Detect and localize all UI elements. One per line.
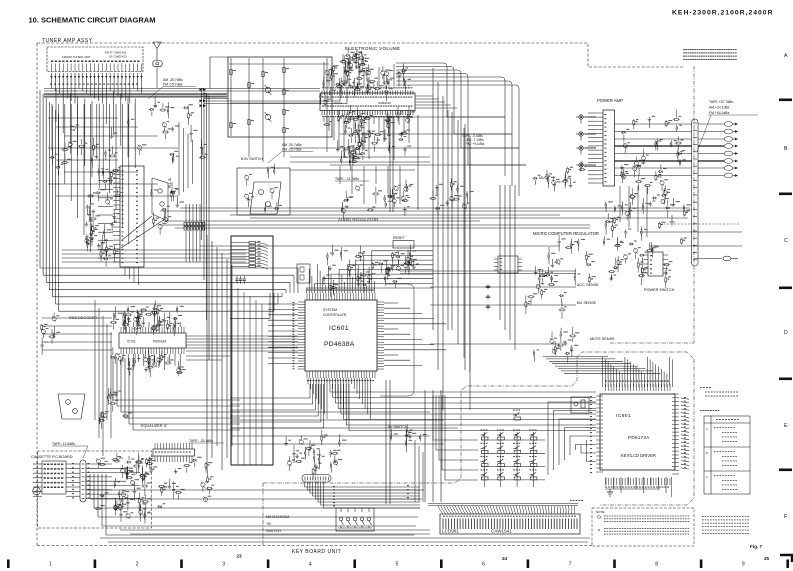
svg-text:AM +24.1dBs: AM +24.1dBs [709,106,730,110]
long top wires from tuner bus [204,87,347,104]
lcd bus lines [428,503,578,505]
IC601 bottom pin comb [306,371,308,378]
power amp IC left pins [596,112,603,114]
tuner bus corner drop bundle [202,89,205,241]
safety note paragraph [683,49,685,50]
svg-text:MUTE SENSE: MUTE SENSE [590,337,615,341]
svg-text:5: 5 [396,562,399,568]
b5v switch trapezoid [250,182,281,214]
FM IF box drop wires [248,136,250,157]
IC601 right wires [384,302,398,304]
lcd fan wires [438,506,443,514]
svg-text:AUDIO REGULATOR: AUDIO REGULATOR [338,217,378,222]
svg-text:BU SENSE: BU SENSE [577,301,597,305]
center vertical bus [432,68,434,330]
cassette capsule connector [80,460,86,502]
svg-text:KEH-2300R,2100R,2400R: KEH-2300R,2100R,2400R [672,10,773,17]
IC601 bottom nested bus left [230,384,310,398]
IC901 right wires [681,398,689,399]
mid horizontal bundle [230,267,298,269]
svg-text:POWER AMP: POWER AMP [597,98,623,103]
volume to power amp stepped wires [396,63,447,117]
PLL IC bottom stubs [124,267,126,276]
power amp left stubs [588,112,596,114]
svg-text:B.5V SWITCH: B.5V SWITCH [241,157,263,161]
decimal note text block [702,515,704,518]
svg-text:5V SWITCH: 5V SWITCH [388,425,408,429]
reset box [393,241,414,249]
IC901 key lcd driver box [600,394,675,470]
trapezoid diagonal wire [121,219,165,248]
svg-text:NOTE:: NOTE: [596,510,605,514]
key matrix switches [481,430,483,431]
power amp output lines [615,123,693,125]
svg-text:CAW1541: CAW1541 [491,529,512,534]
svg-text:SYSTEM: SYSTEM [323,308,337,312]
svg-text:Fig. 7: Fig. 7 [750,544,762,549]
rds to equalizer corner bundle [113,358,240,400]
svg-text:TAPE:-12.6dBs: TAPE:-12.6dBs [52,442,75,446]
svg-text:M: M [35,490,38,494]
IC901 bottom right stub [671,477,673,497]
5v switch cluster [409,432,412,433]
svg-text:TUNER AMP ASSY: TUNER AMP ASSY [42,38,93,44]
left nested corner bus to rds [40,267,230,269]
cassette cluster [126,491,130,492]
tuner vertical drop wires [51,104,53,150]
svg-text:9: 9 [742,562,745,568]
audio regulator right cluster [460,186,463,187]
right mid connector wires [660,223,740,225]
IC601 bottom wires [307,378,309,384]
svg-text:F: F [784,514,787,520]
FM IF internal verticals [230,58,232,136]
svg-text:AM -25.7dBs: AM -25.7dBs [282,143,302,147]
equalizer cluster [125,467,129,468]
svg-text:ELECTRONIC VOLUME: ELECTRONIC VOLUME [345,46,400,51]
svg-text:POWER SWITCH: POWER SWITCH [644,288,675,292]
svg-text:KEY/LCD DRIVER: KEY/LCD DRIVER [621,453,656,458]
keyboard unit dash-dot boundary [263,352,694,483]
svg-text:PD6173A: PD6173A [628,435,650,440]
svg-text:PA0016A: PA0016A [153,340,167,344]
long audio signal lines [350,116,505,118]
mechanism wires down [305,482,421,487]
svg-text:AM -25.7dBs: AM -25.7dBs [163,78,183,82]
svg-text:10. SCHEMATIC CIRCUIT DIAGRAM: 10. SCHEMATIC CIRCUIT DIAGRAM [29,16,156,25]
svg-text:TAPE: -25.1dBs: TAPE: -25.1dBs [189,439,213,443]
pll area cluster [156,218,160,219]
extra mid rails [230,214,560,216]
svg-text:MECHANISM: MECHANISM [266,515,289,519]
bottom ruler ticks [7,560,10,569]
power amp input transistors [579,115,583,119]
main board dashed border bottom [37,545,592,547]
bottom long rails [100,537,590,539]
cassette dashed outline [38,451,152,528]
tape bus lines [290,156,430,158]
rds IC top pins [120,327,122,333]
IC601 top wires [307,288,434,293]
IC601 bottom nested bus right [330,384,596,392]
regulator cluster 2 [564,306,567,307]
svg-text:FM: +9.1dBs: FM: +9.1dBs [466,142,485,146]
pll right vertical bundle [178,122,180,196]
key matrix row wires [481,439,545,441]
left ribbon horizontals [62,249,246,251]
svg-text:IC701: IC701 [127,340,136,344]
rds upper cluster [151,311,155,312]
electronic volume IC top pins [321,91,323,96]
IC601 top cluster [335,250,339,251]
keyboard interface wires [414,440,416,502]
lcd connector pin comb [442,519,444,530]
tuner area horizontals [48,117,118,119]
main board dashed border left [36,43,38,546]
PLL IC left pins [113,169,120,171]
speaker connector capsule [692,119,699,266]
crystal box left of IC901 [571,397,589,413]
wires tuner to FM IF [204,93,228,95]
right edge ticks [779,99,792,102]
audio regulator cluster [372,206,375,207]
rds IC bottom pins [120,348,122,354]
IC601 to LCD vertical wires [424,390,426,502]
electronic volume IC bottom pins [321,111,323,116]
b5v switch outer box [237,168,290,215]
svg-text:23: 23 [237,554,243,559]
PLL IC left component cluster [95,225,99,226]
key extra switch [513,410,515,411]
IC601 right pin comb ticks [377,301,384,303]
power amp IC box [603,110,615,186]
ribbon pads left of IC601 [249,242,256,244]
svg-text:1: 1 [49,562,52,568]
mute sense wire [430,343,560,345]
mechanism switch box [336,508,374,531]
electronic volume lower cluster [354,149,357,150]
svg-text:24: 24 [502,556,508,561]
tuner unit connector row [51,73,53,82]
regulator cluster [620,242,624,243]
left margin vertical wires [39,90,41,268]
key matrix column wires [484,432,486,487]
power switch cluster [668,270,671,271]
tuner to IF long wires [204,95,228,97]
svg-text:2: 2 [136,562,139,568]
svg-text:SWITCH: SWITCH [266,529,281,533]
tuner unit pin comb [51,64,53,72]
IC601 right bracket bus [380,284,414,396]
mechanism connector capsule [302,475,331,483]
small cap column [487,285,489,287]
svg-text:7: 7 [569,562,572,568]
svg-text:ACC SENSE: ACC SENSE [577,283,599,287]
mute transistor cluster [573,182,576,183]
svg-text:E: E [784,423,788,429]
resistor array feed verticals [185,231,187,262]
crystal filter trapezoid [152,178,168,221]
svg-text:CONTROLLER: CONTROLLER [323,313,347,317]
FM IF transistors [265,87,271,93]
IC901 top pin comb [605,384,607,391]
svg-text:IC101: IC101 [334,101,342,105]
rds decoder IC701 box [119,333,186,348]
IC601 top pin comb [306,293,308,300]
wires inside shield loop [237,288,239,465]
FM IF internal rails [229,63,329,65]
volume down to audio regulator wires [339,166,341,184]
electronic volume right rails [415,95,433,97]
tuner output bus [44,88,204,90]
cassette wires capsule right [86,463,112,465]
cassette preamp trapezoid [58,394,85,419]
speaker plugs [724,122,732,127]
note dashed box [592,508,694,546]
rom note lines [700,387,702,388]
svg-text:GF CWE1420: GF CWE1420 [109,54,127,58]
equalizer IC box [153,449,195,456]
power amp input segments [585,116,596,118]
IC901 top bus bundle [543,356,608,358]
svg-text:6: 6 [482,562,485,568]
volume bottom vertical pair [389,115,391,212]
IC901 left pin comb [596,395,603,397]
power amp vertical feeds [619,186,621,222]
left lower vertical wires [94,300,96,420]
tuner bus feed wires [51,82,53,89]
trapezoid right parts [111,394,115,395]
IC901 ground [609,489,611,492]
svg-text:IC601: IC601 [329,325,349,332]
cassette head box [42,461,66,494]
svg-text:IC901: IC901 [616,413,631,419]
rds lower cluster [115,353,118,354]
ic601 bottom long vertical pair [385,380,387,504]
key matrix to IC901 nested wires [548,402,596,475]
svg-text:MICRO COMPUTER REGULATOR: MICRO COMPUTER REGULATOR [533,231,599,236]
svg-text:FM -15.7dBs: FM -15.7dBs [163,83,183,87]
svg-text:SAB3035: SAB3035 [378,101,391,105]
FM IF vertical resistors [230,70,232,75]
svg-text:D: D [784,330,788,336]
application label [700,410,702,411]
antenna plug [153,61,162,67]
ferrite bead symbols at bus corner [200,88,203,91]
cassette head connector comb [33,463,42,465]
cassette wires head to capsule [66,463,80,465]
tuner components cluster [174,151,177,152]
cassette to keyboard nested bus [86,474,424,490]
power switch IC box [648,252,663,276]
acc sense wire [430,286,576,288]
equalizer IC pins [154,456,156,462]
svg-text:A: A [784,53,788,59]
power amp output network cluster [683,159,686,160]
FM IF amplifier box [228,57,332,137]
lcd connector box [440,514,580,534]
svg-text:PLL IC: PLL IC [168,177,172,188]
svg-text:TAPE +22.7dBs: TAPE +22.7dBs [709,100,733,104]
rds wires left [42,317,112,319]
keyboard unit left boundary [262,483,264,546]
svg-text:3: 3 [222,562,225,568]
IC901 right pin comb [672,393,679,395]
tuner bus drop wires [55,89,57,123]
shield loop around IC601 feed [231,236,273,465]
sub box near IC601 top-left [297,264,310,283]
svg-text:KEY BOARD UNIT: KEY BOARD UNIT [292,549,341,555]
svg-text:25: 25 [764,556,770,561]
IC901 bottom wires [605,477,607,485]
bu sense wire [430,304,576,306]
b5v area cluster [249,193,252,194]
ground near capsule [671,215,673,222]
resistor array [184,223,186,226]
antenna [153,42,161,49]
cassette motor [33,487,41,495]
PLL IC inner right labels [136,170,138,171]
svg-text:FM/AM TUNER UNIT: FM/AM TUNER UNIT [62,55,91,59]
IC601 system controller box [305,300,377,371]
IC901 top fan wires [602,357,604,387]
mechanism cluster [317,454,321,455]
FM IF right parts column [336,65,339,66]
PLL IC box [120,166,144,267]
power amp lower cluster [617,217,620,218]
long regulator rails [180,207,690,209]
three caps under ribbon [236,276,238,279]
svg-text:B: B [784,146,788,152]
application table [704,416,750,494]
electronic volume upper cluster [350,68,353,69]
main board dash-dot border right [693,66,695,343]
mid lower horizontal bundle [232,411,430,413]
left edge parts cluster [56,315,59,316]
detector IC box [498,256,518,273]
FM/AM tuner unit box [47,47,143,72]
matrix left entry wires [433,395,478,440]
center right vertical bundle [451,112,453,330]
rds right wires [186,335,298,337]
IC601 left wires [268,303,298,305]
center-left vertical bundle [206,235,208,470]
svg-text:PD4638A: PD4638A [324,341,355,348]
main board dash-dot jog at mute sense [610,342,694,344]
svg-text:TAPE: -21.7dBs: TAPE: -21.7dBs [335,177,359,181]
mid connector plug [723,256,731,261]
svg-text:C: C [784,238,788,244]
tuner long lines to volume IC [44,94,227,96]
electronic volume bottom wires [323,117,325,122]
tuner left components cluster [96,144,99,145]
electronic volume IC box [320,93,415,111]
electronic volume top feed wires [323,62,325,87]
svg-text:RESET: RESET [393,236,406,240]
svg-text:+B: +B [266,522,271,526]
svg-text:8: 8 [655,562,658,568]
bottom right corner mark [780,555,792,562]
svg-text:EQUALIZER IC: EQUALIZER IC [141,424,168,428]
IC601 left pin comb [298,301,305,303]
reset cluster [408,262,411,263]
acc bu rails [400,270,576,272]
PLL IC left wires [98,171,113,173]
IC901 bottom pin comb [605,478,607,485]
mute sense cluster [557,345,560,346]
svg-text:4: 4 [309,562,312,568]
svg-text:FM +54.1dBs: FM +54.1dBs [709,111,730,115]
main board dashed border top [37,43,683,67]
rds pin verticals [122,312,124,327]
svg-text:LCD901: LCD901 [442,529,459,534]
